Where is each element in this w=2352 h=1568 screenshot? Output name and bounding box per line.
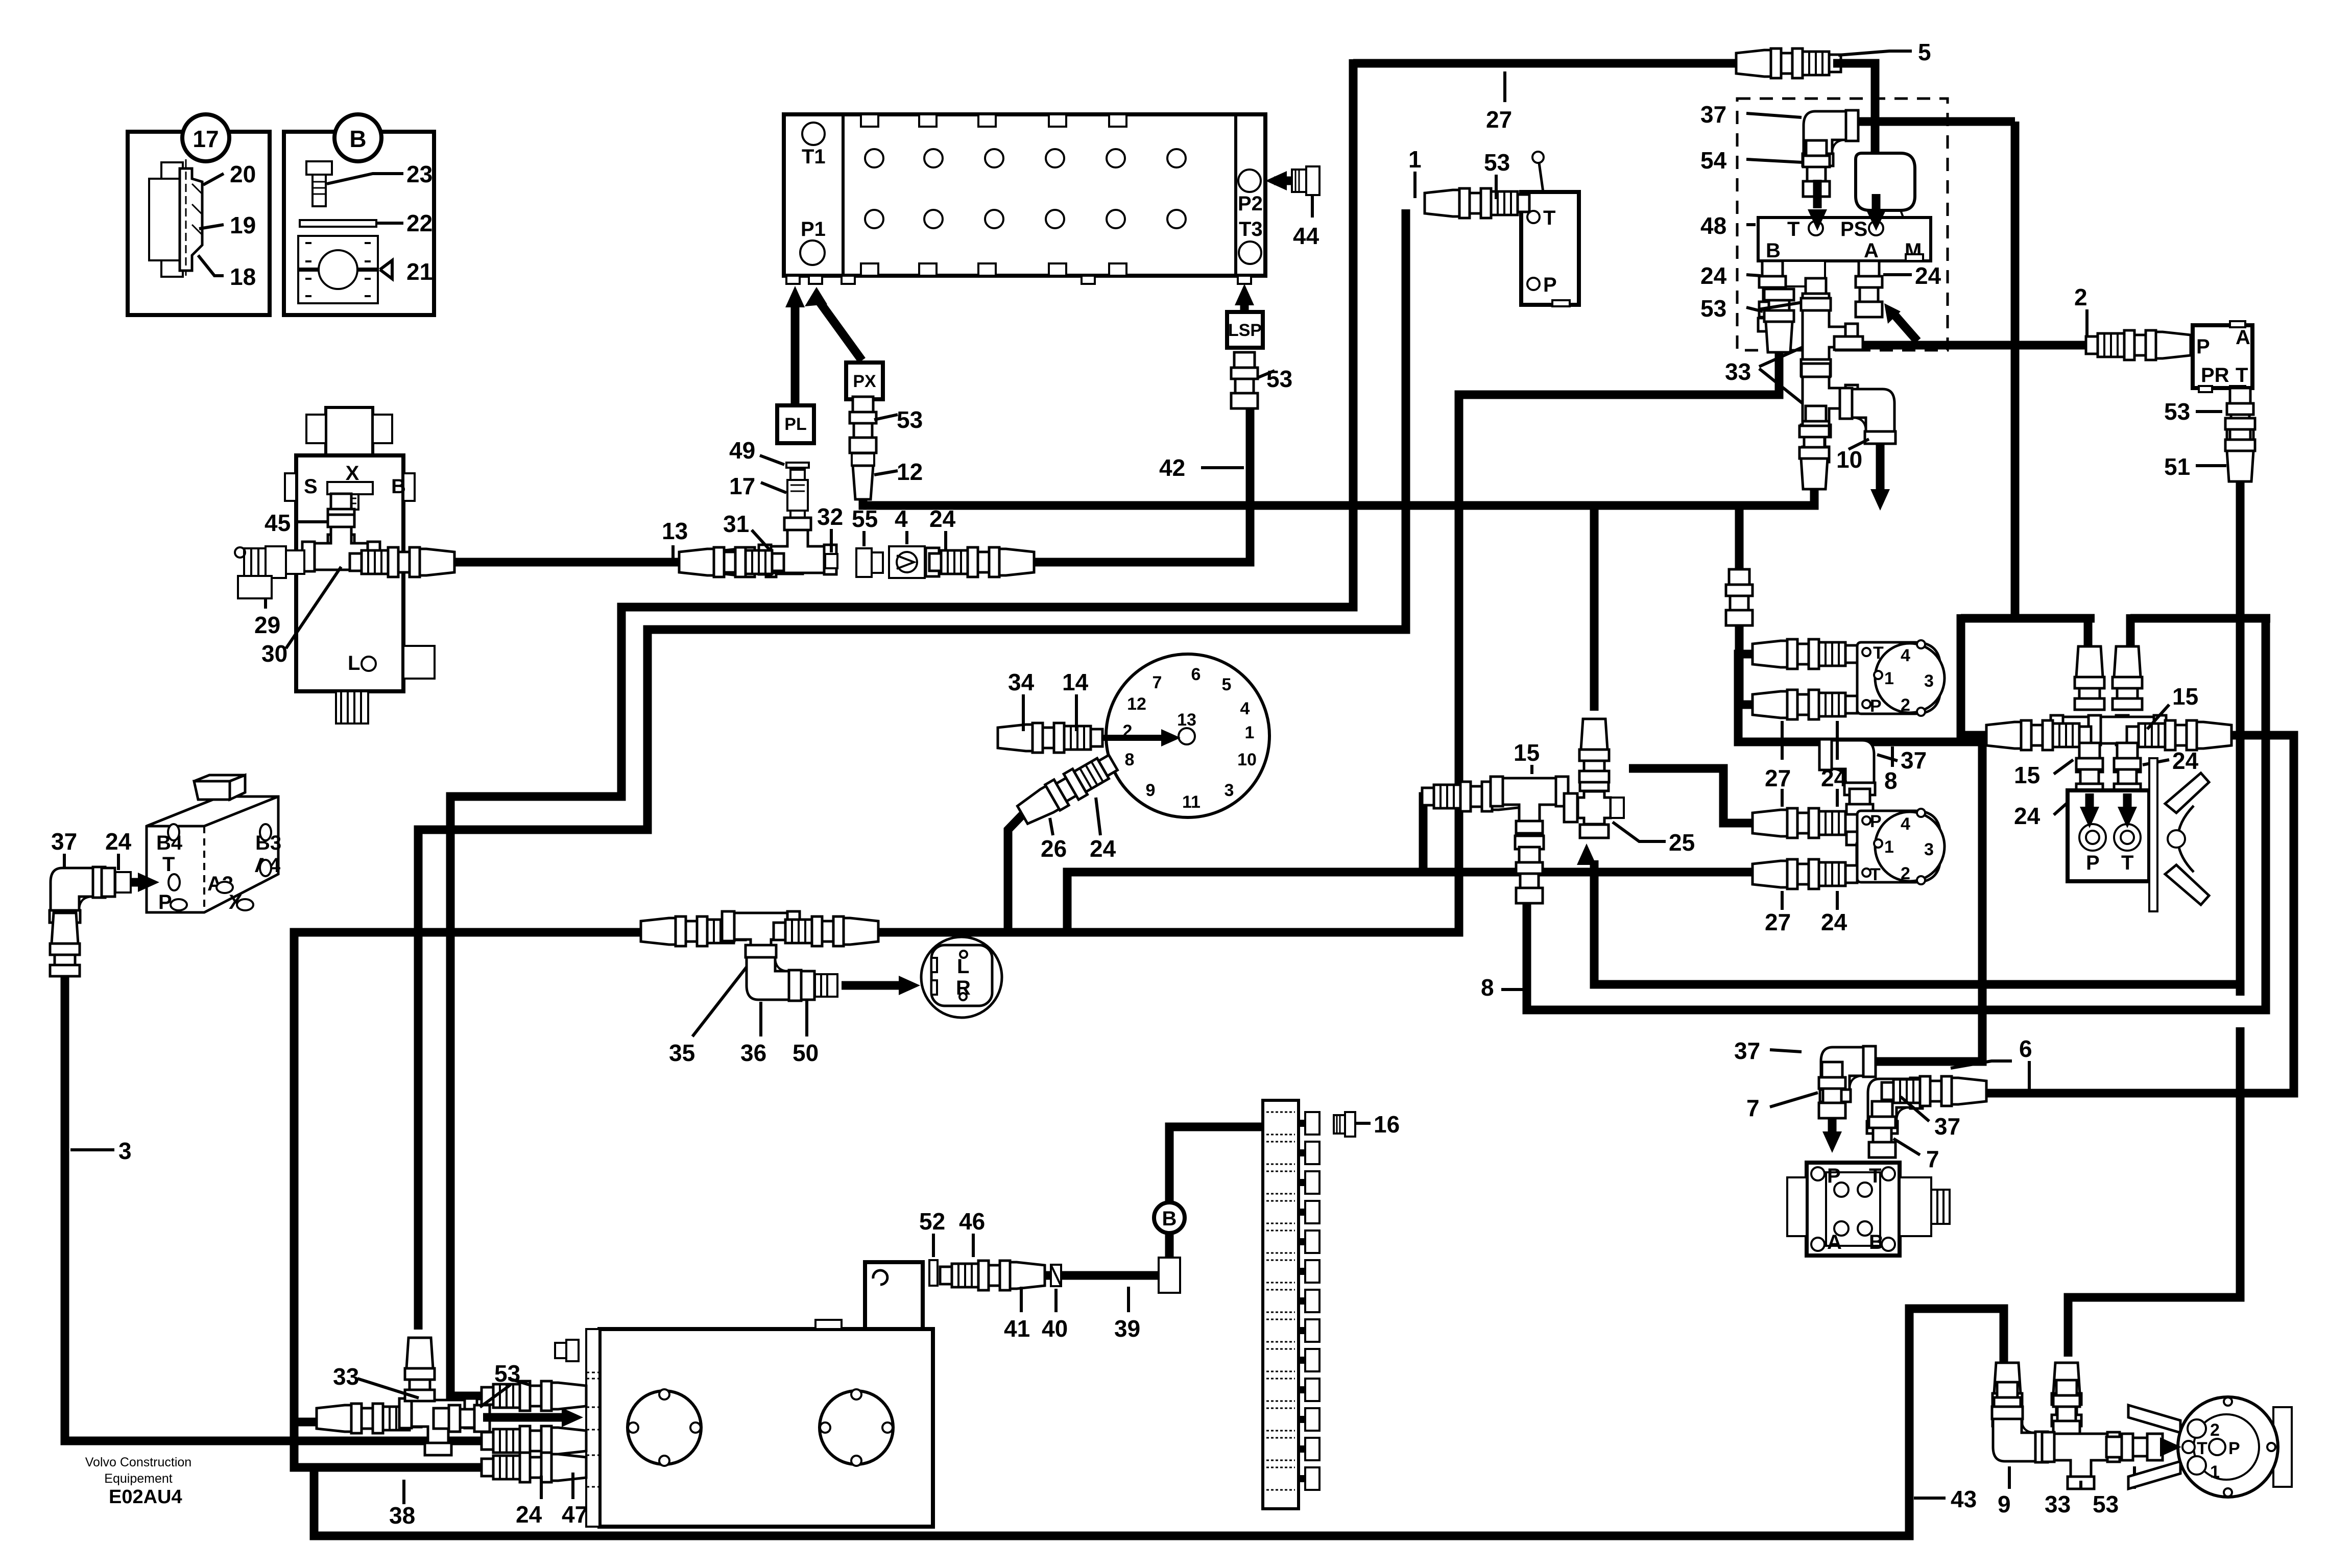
svg-text:24: 24	[929, 505, 956, 532]
B circle on line	[1154, 1202, 1185, 1233]
svg-text:50: 50	[793, 1040, 819, 1066]
svg-text:18: 18	[230, 263, 256, 290]
svg-text:4: 4	[1240, 699, 1250, 718]
svg-text:7: 7	[1153, 673, 1162, 692]
svg-text:52: 52	[919, 1208, 945, 1235]
coupling item 5	[1736, 49, 1841, 78]
plug 52	[929, 1260, 938, 1286]
hose-end on hose 13	[710, 547, 814, 577]
svg-text:8: 8	[1884, 767, 1898, 794]
tank side fittings	[555, 1340, 579, 1361]
fitting 24 + coupler right of 4	[926, 548, 939, 576]
holes two rows	[865, 149, 883, 167]
svg-text:43: 43	[1951, 1486, 1977, 1512]
fitting under tee 15	[1516, 847, 1543, 903]
valve 40	[1051, 1265, 1061, 1286]
accumulator	[1856, 153, 1915, 210]
bottom pump assembly	[1993, 1363, 2022, 1426]
fitting 54	[1803, 140, 1830, 197]
svg-text:16: 16	[1374, 1111, 1400, 1138]
wire arrow into P port	[1828, 1105, 1837, 1139]
LSP box	[1227, 312, 1263, 348]
fitting 27/24 to motor1 T	[1753, 639, 1857, 669]
bolt 23	[306, 161, 332, 206]
elbow 37 to T + fitting 7	[1867, 1078, 1923, 1133]
plate 22	[300, 220, 376, 227]
svg-text:P1: P1	[801, 218, 826, 240]
svg-text:44: 44	[1293, 223, 1319, 249]
hose-end at tee 15 left port	[1422, 782, 1527, 811]
svg-text:T3: T3	[1239, 218, 1263, 240]
svg-text:T: T	[162, 853, 175, 876]
svg-text:T: T	[2121, 852, 2133, 874]
svg-text:7: 7	[1746, 1095, 1760, 1121]
svg-text:1: 1	[1408, 146, 1422, 173]
svg-text:33: 33	[333, 1363, 359, 1390]
svg-text:46: 46	[959, 1208, 985, 1235]
wire hose13 left segment	[433, 558, 708, 567]
svg-text:31: 31	[723, 511, 749, 537]
inset box 17	[128, 132, 270, 315]
svg-text:22: 22	[406, 210, 433, 236]
svg-text:P: P	[2196, 335, 2210, 358]
svg-text:T: T	[1787, 218, 1799, 240]
svg-text:27: 27	[1765, 765, 1791, 791]
svg-text:20: 20	[230, 161, 256, 187]
wire hose13 right to LSP	[1018, 403, 1250, 562]
svg-text:15: 15	[2014, 762, 2040, 788]
wire bottom motor P feed	[1629, 768, 1762, 823]
svg-text:37: 37	[1901, 747, 1927, 774]
svg-text:5: 5	[1918, 39, 1931, 65]
svg-text:1: 1	[1245, 723, 1255, 742]
svg-text:37: 37	[1734, 1038, 1760, 1064]
inset box B	[284, 132, 434, 315]
disc 49	[786, 463, 809, 468]
svg-text:P: P	[158, 891, 172, 913]
elbow 37 top	[1803, 110, 1858, 166]
svg-text:2: 2	[1901, 695, 1910, 715]
svg-text:9: 9	[1998, 1491, 2011, 1517]
svg-text:37: 37	[51, 828, 77, 855]
svg-text:35: 35	[669, 1040, 695, 1066]
svg-text:P: P	[1543, 274, 1557, 296]
svg-text:37: 37	[1700, 101, 1726, 128]
wire branch to tee33 left	[294, 1418, 334, 1427]
svg-text:24: 24	[1821, 765, 1847, 791]
svg-text:34: 34	[1008, 669, 1035, 695]
hose end 12 under PX	[852, 453, 874, 499]
elbow 37 right of cross	[1819, 739, 1875, 795]
svg-text:30: 30	[261, 640, 287, 667]
svg-text:53: 53	[1266, 366, 1292, 392]
top tabs	[861, 114, 878, 127]
elbow 37 to P	[1820, 1046, 1876, 1102]
svg-text:54: 54	[1700, 147, 1727, 174]
dashed box item 48 area	[1737, 99, 1948, 350]
svg-text:P: P	[1870, 696, 1882, 716]
manifold column	[1263, 1100, 1319, 1509]
svg-text:10: 10	[1836, 446, 1862, 473]
wire B-port line long snake through tee35 to tank	[294, 352, 1779, 1467]
wire stub fitting7 to T port	[1878, 1117, 1887, 1150]
svg-text:T: T	[2236, 364, 2248, 387]
svg-text:A: A	[2236, 326, 2250, 349]
svg-text:36: 36	[740, 1040, 766, 1066]
fitting 55	[856, 548, 883, 577]
bottom motor	[1857, 809, 1945, 884]
svg-text:48: 48	[1700, 212, 1726, 239]
svg-text:49: 49	[729, 437, 755, 464]
svg-text:Volvo Construction: Volvo Construction	[85, 1455, 191, 1469]
quick coupler 29 with cap	[235, 546, 304, 598]
wire P feed vertical to top motor	[1739, 505, 1763, 705]
svg-text:24: 24	[516, 1501, 542, 1528]
wire y1211 right piece + corner to right tee	[2130, 614, 2270, 623]
svg-text:24: 24	[1821, 909, 1847, 935]
svg-text:4: 4	[1901, 814, 1910, 834]
svg-text:5: 5	[1222, 675, 1232, 694]
svg-text:T1: T1	[802, 146, 826, 168]
svg-text:55: 55	[852, 505, 878, 532]
plug 32	[825, 554, 837, 568]
plug 16	[1334, 1112, 1355, 1137]
top motor	[1857, 640, 1945, 716]
elbow 37 at B4	[50, 867, 105, 923]
svg-text:6: 6	[1191, 665, 1201, 684]
hose-end 26 diagonal	[1015, 750, 1121, 828]
svg-text:T: T	[1873, 643, 1884, 663]
wire tee15 bottom to right vertical 4437	[1527, 615, 2266, 1010]
svg-text:24: 24	[1700, 262, 1727, 289]
svg-text:53: 53	[1484, 149, 1510, 176]
PAPRT valve item 2	[2193, 325, 2252, 388]
svg-text:32: 32	[817, 503, 843, 530]
hose-end below elbow	[50, 913, 80, 976]
main valve block top center	[784, 114, 1265, 284]
svg-text:17: 17	[193, 126, 219, 152]
wire arrow line to cross25 bottom	[1594, 860, 2240, 984]
svg-text:29: 29	[254, 612, 280, 638]
wire long vertical x3946	[2011, 122, 2020, 618]
arrowheads	[1235, 284, 1254, 305]
svg-text:53: 53	[2093, 1491, 2119, 1517]
svg-text:B: B	[1766, 239, 1781, 262]
fitting 45	[328, 494, 354, 550]
svg-text:P: P	[1870, 812, 1882, 831]
wire 8 motor loop to A/B P-port elbow	[1738, 654, 1982, 1062]
wire 50 arrow to LR circle	[842, 981, 906, 990]
wire hose 43 bottom run	[314, 1309, 2004, 1536]
coupling 53 on hose 1	[1425, 188, 1529, 218]
pressure switch item 1	[1521, 192, 1579, 305]
33 stack tee1	[1801, 298, 1858, 376]
hose-end on hose13 right of tee30	[350, 547, 454, 577]
inset 17 internal cross-section drawing	[149, 159, 202, 277]
svg-text:24: 24	[1090, 835, 1116, 862]
svg-text:PR: PR	[2201, 364, 2229, 387]
svg-text:T: T	[1869, 1165, 1881, 1187]
svg-text:39: 39	[1114, 1315, 1140, 1342]
fitting 34/14 feeding clock	[998, 723, 1102, 753]
svg-text:24: 24	[1915, 262, 1941, 289]
svg-text:B: B	[349, 126, 366, 152]
svg-text:B: B	[1869, 1231, 1884, 1253]
COMPONENTS part2	[50, 407, 2292, 1529]
tank	[586, 1262, 933, 1527]
wire hose 2	[1861, 341, 2147, 350]
53 fitting + hose end under B	[1758, 318, 1787, 331]
wire 51 line long vertical down to pump feed	[2068, 481, 2240, 1357]
PL box	[777, 405, 814, 443]
svg-text:1: 1	[1884, 837, 1894, 857]
wire snake from hose5 corner down-left to tank pad2	[450, 59, 1353, 1396]
svg-text:7: 7	[1926, 1146, 1939, 1172]
svg-text:P: P	[1827, 1165, 1841, 1187]
wire bottom motor T feed	[1067, 872, 1762, 932]
svg-text:8: 8	[1481, 974, 1494, 1001]
svg-text:10: 10	[1237, 750, 1257, 769]
svg-text:A: A	[1864, 239, 1879, 262]
svg-text:T: T	[1543, 207, 1555, 229]
svg-text:53: 53	[2164, 398, 2190, 425]
wire hose 41 to manifold	[1042, 1271, 1159, 1280]
tee 35/36/50	[641, 916, 746, 946]
svg-text:3: 3	[1924, 840, 1934, 859]
svg-text:37: 37	[1934, 1113, 1960, 1140]
coupling on hose 2 at P port	[2086, 330, 2191, 360]
svg-text:33: 33	[1725, 358, 1751, 385]
svg-text:47: 47	[562, 1501, 588, 1528]
svg-text:51: 51	[2164, 453, 2190, 480]
svg-text:12: 12	[897, 459, 923, 485]
svg-text:1: 1	[1884, 669, 1894, 688]
svg-text:1: 1	[2210, 1462, 2220, 1482]
tee 33 bottom left	[317, 1404, 421, 1433]
svg-text:T: T	[2197, 1439, 2207, 1458]
hose-end above cross 25	[1579, 719, 1609, 782]
svg-text:P2: P2	[1238, 192, 1263, 215]
svg-text:2: 2	[2210, 1420, 2220, 1440]
elbow 10	[1840, 388, 1895, 444]
manifold block 48	[1758, 218, 1931, 261]
left pilot valve body (X S B L)	[285, 407, 435, 723]
wire tee15 left jog	[1423, 797, 1445, 872]
svg-text:53: 53	[1700, 295, 1726, 322]
LR circle	[921, 937, 1002, 1018]
wire snakeB hose1 to tee33 top	[418, 209, 1406, 1330]
coupler at 1387 on hose13	[679, 547, 784, 577]
wire line into elbow37 top right	[1846, 117, 2015, 126]
svg-text:21: 21	[406, 258, 433, 285]
svg-text:3: 3	[1225, 781, 1234, 800]
wire y1211 left piece + corners to left tee	[1961, 614, 2095, 623]
wire hose 5 to PS arrow	[1833, 63, 1875, 194]
svg-text:24: 24	[2014, 803, 2041, 829]
fitting 53 under LSP	[1231, 352, 1258, 408]
svg-text:45: 45	[265, 510, 291, 536]
svg-text:B: B	[1162, 1208, 1177, 1230]
crossing break gap	[2235, 996, 2246, 1027]
svg-text:PL: PL	[784, 415, 806, 434]
svg-text:B: B	[391, 475, 406, 498]
clamp 21	[298, 236, 378, 303]
pump body	[2128, 1397, 2292, 1497]
svg-text:4: 4	[895, 505, 908, 532]
svg-text:PX: PX	[853, 372, 876, 391]
svg-text:26: 26	[1041, 835, 1067, 862]
svg-text:S: S	[304, 475, 318, 498]
box 39	[1159, 1258, 1180, 1293]
tee 30 on outlet	[302, 515, 380, 571]
bracket plate	[2149, 758, 2209, 911]
svg-text:15: 15	[2172, 683, 2198, 710]
check valve 17 vertical	[787, 470, 808, 524]
svg-text:15: 15	[1514, 739, 1540, 766]
check valve 4	[889, 546, 925, 578]
wire PL vertical arrow	[791, 304, 800, 405]
wire hose 3	[65, 974, 498, 1441]
svg-text:12: 12	[1127, 694, 1146, 714]
svg-text:53: 53	[494, 1360, 520, 1387]
svg-text:19: 19	[230, 212, 256, 238]
fitting 53 under PX	[850, 397, 876, 453]
53 + 51 below T	[2227, 388, 2253, 444]
fitting 27/24 to motor2 T	[1753, 859, 1857, 889]
svg-text:3: 3	[118, 1138, 132, 1164]
33 stack lower fittings	[1803, 406, 1829, 462]
svg-text:53: 53	[897, 406, 923, 433]
bottom tabs	[861, 263, 878, 276]
svg-text:24: 24	[2172, 747, 2199, 774]
svg-text:38: 38	[389, 1502, 415, 1529]
24 fitting under B	[1759, 261, 1786, 317]
svg-text:Equipement: Equipement	[104, 1471, 172, 1486]
svg-text:13: 13	[662, 518, 688, 544]
wire PX diagonal arrow	[819, 301, 862, 360]
wire right tee to A/B T-port elbow	[1897, 735, 2294, 1093]
svg-text:P: P	[2086, 852, 2100, 874]
svg-text:33: 33	[2045, 1491, 2071, 1517]
svg-text:27: 27	[1486, 106, 1512, 133]
A/B block	[1787, 1163, 1950, 1256]
label 6 leader touching hose at top	[1951, 1061, 2012, 1068]
svg-text:4: 4	[1901, 646, 1910, 665]
fitting 44 with arrow to P2	[1274, 177, 1292, 185]
svg-text:PS: PS	[1840, 218, 1867, 240]
svg-text:42: 42	[1159, 454, 1185, 481]
svg-text:T: T	[1870, 865, 1881, 884]
svg-text:6: 6	[2019, 1035, 2032, 1062]
svg-text:A: A	[1827, 1231, 1842, 1253]
svg-text:14: 14	[1062, 669, 1089, 695]
svg-text:8: 8	[1125, 750, 1135, 769]
fitting 27/24 to motor1 P	[1753, 690, 1857, 719]
svg-text:40: 40	[1042, 1315, 1068, 1342]
svg-text:24: 24	[105, 828, 132, 855]
svg-text:11: 11	[1182, 792, 1201, 812]
svg-text:3: 3	[1924, 671, 1934, 691]
svg-text:13: 13	[1177, 710, 1196, 730]
wire LSP arrow up into block	[1240, 301, 1249, 312]
svg-text:LSP: LSP	[1228, 321, 1262, 340]
svg-text:25: 25	[1669, 829, 1695, 856]
wire vertical to cross25 top	[1590, 505, 1599, 711]
twin tees 15	[2075, 646, 2104, 710]
B4 iso box	[131, 775, 281, 913]
svg-text:23: 23	[406, 161, 433, 187]
small box under 48 between B and A	[1780, 261, 1825, 286]
24 fitting under A	[1856, 261, 1882, 317]
fitting 46	[940, 1261, 1045, 1290]
svg-text:9: 9	[1146, 781, 1156, 800]
wire hose 26 drop	[1008, 815, 1022, 932]
33 stack tee2	[1801, 359, 1858, 437]
PX box	[846, 363, 883, 399]
svg-text:2: 2	[1901, 864, 1910, 883]
wire 12 line across to 33 stack	[863, 490, 1814, 505]
svg-text:L: L	[348, 652, 360, 674]
53 fitting on 33 stack	[1803, 278, 1829, 334]
svg-text:41: 41	[1004, 1315, 1030, 1342]
ports	[802, 123, 825, 145]
svg-text:P: P	[2228, 1439, 2240, 1458]
svg-text:2: 2	[2074, 284, 2087, 310]
svg-text:27: 27	[1765, 909, 1791, 935]
fitting 27/24 to motor2 P	[1753, 808, 1857, 838]
arrow diag into A port of 48	[1892, 312, 1917, 341]
svg-text:17: 17	[729, 473, 755, 499]
svg-text:E02AU4: E02AU4	[109, 1486, 182, 1508]
LABELS	[1159, 39, 1931, 481]
clock dial	[1093, 654, 1269, 817]
fitting chain on motor P feed	[1726, 569, 1753, 625]
wire hose 5 top run	[1353, 59, 1738, 68]
P/T block	[2068, 790, 2149, 881]
